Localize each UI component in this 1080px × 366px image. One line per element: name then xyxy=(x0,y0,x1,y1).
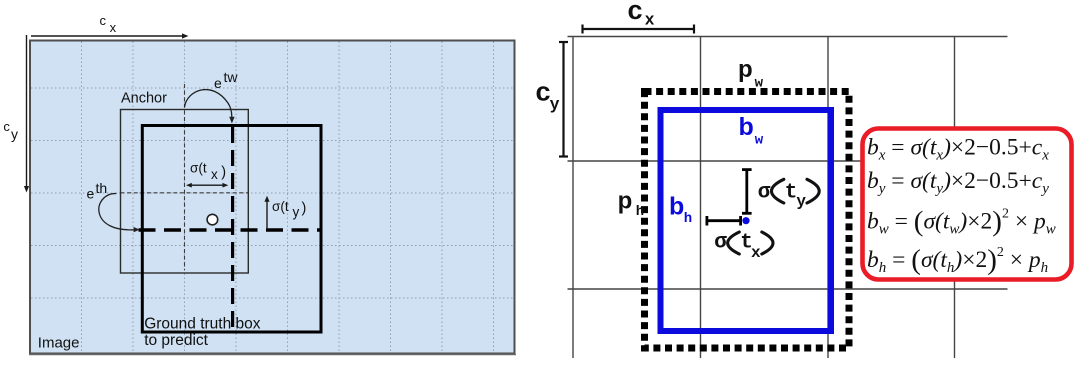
svg-text:bx = σ(tx)×2−0.5+cx: bx = σ(tx)×2−0.5+cx xyxy=(867,135,1049,164)
svg-text:σ(t: σ(t xyxy=(190,161,207,176)
svg-text:c: c xyxy=(100,13,107,28)
svg-text:x: x xyxy=(211,167,218,182)
svg-text:σ: σ xyxy=(714,232,727,255)
svg-text:b: b xyxy=(739,113,754,141)
svg-text:bw = (σ(tw)×2)2 × pw: bw = (σ(tw)×2)2 × pw xyxy=(867,206,1056,238)
svg-text:y: y xyxy=(796,192,806,210)
svg-text:y: y xyxy=(550,95,560,114)
svg-text:bh = (σ(th)×2)2 × ph: bh = (σ(th)×2)2 × ph xyxy=(867,244,1048,276)
svg-text:p: p xyxy=(738,56,753,83)
svg-text:y: y xyxy=(11,126,18,142)
svg-text:e: e xyxy=(214,75,222,91)
svg-text:σ(t: σ(t xyxy=(272,199,289,214)
svg-text:): ) xyxy=(221,164,226,180)
svg-text:by = σ(ty)×2−0.5+cy: by = σ(ty)×2−0.5+cy xyxy=(867,168,1049,197)
svg-text:to predict: to predict xyxy=(144,332,208,349)
svg-text:x: x xyxy=(751,244,761,262)
svg-text:c: c xyxy=(628,0,643,25)
svg-text:): ) xyxy=(302,200,307,216)
svg-text:Ground truth box: Ground truth box xyxy=(144,316,261,333)
svg-text:y: y xyxy=(293,205,300,220)
svg-text:th: th xyxy=(96,180,108,196)
svg-text:c: c xyxy=(3,119,10,134)
svg-text:w: w xyxy=(755,133,764,149)
svg-text:tw: tw xyxy=(224,69,239,85)
svg-text:Anchor: Anchor xyxy=(121,90,167,106)
svg-text:x: x xyxy=(645,11,655,30)
svg-text:w: w xyxy=(755,75,764,91)
svg-text:x: x xyxy=(110,20,117,35)
svg-text:σ: σ xyxy=(758,181,771,204)
svg-text:e: e xyxy=(87,186,95,202)
svg-text:c: c xyxy=(536,77,551,107)
svg-text:p: p xyxy=(618,188,633,215)
svg-text:Image: Image xyxy=(38,335,80,352)
svg-text:b: b xyxy=(669,193,684,221)
svg-text:h: h xyxy=(684,211,692,227)
svg-text:h: h xyxy=(636,204,644,220)
